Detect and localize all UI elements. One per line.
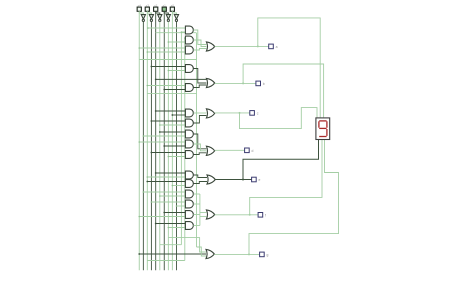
AND gate A10: [185, 151, 193, 159]
wire A9 output elbow: [193, 144, 206, 151]
wire A14 output: [193, 203, 200, 205]
wire riser vertical x=184.8: [184, 38, 186, 261]
wire bus x2 vertical: [155, 11, 157, 270]
wire A7 output elbow: [193, 116, 206, 124]
wire bus x3 vertical: [146, 11, 148, 270]
wire input stub to AND A1: [148, 27, 185, 29]
wire bus x0 vertical: [171, 11, 173, 270]
wire A1 output elbow: [193, 30, 206, 45]
wire seg-c route to display: [249, 140, 339, 255]
wire OR3 output to pin c: [215, 112, 250, 114]
inverter U1: [141, 15, 145, 20]
wire input stub to AND A12: [172, 185, 185, 187]
wire OR5 output to pin e: [215, 179, 251, 181]
wire input stub to AND A15: [139, 216, 185, 218]
wire input stub to AND A9: [139, 141, 185, 143]
wire input stub to AND A15: [164, 212, 185, 214]
input pin x2: [154, 7, 158, 11]
wire pin x2 to inverter: [156, 11, 160, 14]
output pin b: [256, 81, 261, 86]
wire input stub to AND A13: [143, 191, 185, 193]
AND gate A13: [185, 190, 193, 198]
wire bus not-x2 vertical: [159, 22, 161, 271]
wire bus not-x3 vertical: [150, 22, 152, 271]
AND gate A5: [185, 84, 193, 92]
wire long vertical net x=196.5: [196, 33, 198, 247]
wire pin x1 to inverter: [164, 11, 168, 14]
OR gate OR3: [206, 109, 214, 118]
node junction f branch: [249, 214, 251, 216]
inverter U5: [174, 15, 178, 20]
wire input stub to AND A14: [151, 201, 185, 203]
AND gate A6: [185, 109, 193, 117]
wire input stub to AND A3: [139, 47, 185, 49]
input pin x0: [170, 7, 174, 11]
7-segment segment d: [319, 136, 326, 138]
inverter U4: [166, 15, 170, 20]
svg-text:f: f: [265, 213, 266, 217]
AND gate A1: [185, 26, 193, 34]
wire bus not-x1 vertical: [167, 22, 169, 271]
AND gate A8: [185, 130, 193, 138]
wire input stub to AND A16: [156, 223, 186, 225]
wire seg-f route: [240, 108, 318, 129]
svg-text:b: b: [263, 82, 265, 86]
node junction a branch: [257, 45, 259, 47]
OR gate OR2: [206, 78, 214, 87]
wire A16 output: [193, 225, 200, 227]
wire input stub to AND A16: [168, 227, 185, 229]
wire input stub to AND A10: [168, 156, 185, 158]
wire OR7 light input elbow 1: [168, 238, 206, 252]
wire crossing horizontal y=59.5: [139, 59, 196, 61]
wire input stub to AND A13: [160, 195, 186, 197]
wire A15 output: [193, 214, 200, 216]
wire OR6 input lower: [200, 216, 207, 218]
7-segment segment f: [318, 121, 320, 127]
wire A2 output elbow: [193, 40, 206, 47]
wire A4 output elbow: [193, 69, 206, 84]
inverter U3: [158, 15, 162, 20]
wire bus not-x4 vertical: [142, 22, 144, 271]
wire seg-a route up: [258, 18, 320, 118]
AND gate A9: [185, 140, 193, 148]
AND gate A7: [185, 119, 193, 127]
wire input stub to AND A4: [151, 66, 185, 68]
AND gate A14: [185, 200, 193, 208]
wire bus x1 vertical: [163, 11, 165, 270]
wire bus not-x0 vertical: [175, 22, 177, 271]
wire input stub to AND A8: [143, 135, 185, 137]
7-segment segment c: [326, 129, 328, 136]
wire OR6 feeder vertical: [199, 194, 201, 226]
wire input stub to AND A10: [151, 152, 185, 154]
wire input stub to AND A1: [181, 31, 185, 33]
wire riser feed horizontal y=244.7: [160, 244, 182, 246]
input pin x1: [162, 7, 166, 11]
input pin x3: [145, 7, 149, 11]
7-segment display body: [316, 118, 330, 140]
wire A13 output: [193, 193, 200, 195]
wire bus dark input to OR7: [139, 253, 206, 255]
wire input stub to AND A3: [147, 51, 185, 53]
wire OR6 output to pin f: [215, 214, 258, 216]
output pin g: [260, 252, 265, 257]
wire input stub to AND A7: [160, 124, 186, 126]
AND gate A2: [185, 36, 193, 44]
OR gate OR4: [206, 146, 214, 155]
wire input stub to AND A6: [172, 114, 185, 116]
OR gate OR7: [206, 249, 214, 258]
wire seg-e route to display: [243, 140, 319, 180]
wire pin x4 to inverter: [139, 11, 143, 14]
OR gate OR1: [206, 42, 214, 51]
node junction g branch: [248, 253, 250, 255]
svg-text:a: a: [276, 45, 278, 49]
wire OR2 output to pin b: [215, 82, 256, 84]
wire input stub to AND A9: [164, 145, 185, 147]
wire input stub to AND A14: [176, 205, 185, 207]
wire input stub to AND A2: [184, 37, 187, 39]
7-segment segment g: [319, 127, 326, 129]
wire input stub to AND A4: [168, 70, 185, 72]
input pin x4: [137, 7, 141, 11]
wire A8 output elbow: [193, 134, 206, 149]
wire A6 output: [193, 112, 206, 114]
wire A12 output elbow: [193, 182, 207, 184]
wire bus x4 vertical: [138, 11, 140, 270]
OR gate OR6: [206, 210, 214, 219]
AND gate A16: [185, 222, 193, 230]
wire input stub to AND A7: [151, 120, 185, 122]
7-segment segment b: [326, 121, 328, 127]
svg-text:g: g: [267, 253, 269, 257]
wire input stub to AND A11: [147, 176, 185, 178]
output pin c: [250, 111, 255, 116]
output pin a: [269, 44, 274, 49]
wire OR1 output to pin a: [215, 45, 269, 47]
OR gate OR5: [207, 175, 215, 184]
wire input stub to AND A12: [147, 181, 185, 183]
AND gate A12: [185, 180, 193, 188]
wire A10 output elbow: [193, 153, 206, 155]
7-segment segment a: [319, 120, 326, 122]
wire A11 output elbow: [193, 175, 207, 178]
wire seg-d route to display: [250, 140, 322, 215]
svg-text:c: c: [257, 112, 259, 116]
wire pin x0 to inverter: [172, 11, 176, 14]
output pin f: [258, 213, 263, 218]
wire OR7 light input elbow 2: [197, 247, 207, 256]
wire A3 output elbow: [193, 49, 206, 51]
AND gate A15: [185, 211, 193, 219]
inverter U2: [149, 15, 153, 20]
AND gate A3: [185, 46, 193, 54]
output pin e: [252, 177, 257, 182]
wire feed to long net y=32.7: [156, 32, 197, 34]
wire seg-b route up: [243, 64, 324, 117]
node junction b branch: [242, 82, 244, 84]
AND gate A4: [185, 65, 193, 73]
node junction c branch: [239, 112, 241, 114]
output pin d: [245, 148, 250, 153]
wire riser feed horizontal y=260.5: [147, 260, 185, 262]
wire OR6 input upper: [200, 212, 207, 214]
wire input stub to AND A2: [168, 41, 185, 43]
wire bus input to OR2: [156, 78, 207, 80]
wire input stub to AND A6: [156, 110, 186, 112]
wire riser vertical x=181.4: [180, 32, 182, 245]
svg-text:e: e: [259, 178, 261, 182]
wire A5 output elbow: [193, 85, 206, 88]
AND gate A11: [185, 171, 193, 179]
wire input stub to AND A11: [156, 172, 186, 174]
wire input stub to AND A5: [164, 89, 185, 91]
svg-text:d: d: [252, 149, 254, 153]
wire pin x3 to inverter: [147, 11, 151, 14]
wire input stub to AND A8: [160, 131, 186, 133]
node junction e branch: [242, 179, 244, 181]
wire OR4 output to pin d: [215, 149, 245, 151]
wire input stub to AND A5: [147, 85, 185, 87]
wire feed to long net y=93.4: [147, 92, 196, 94]
wire OR7 output to pin g: [214, 253, 259, 255]
